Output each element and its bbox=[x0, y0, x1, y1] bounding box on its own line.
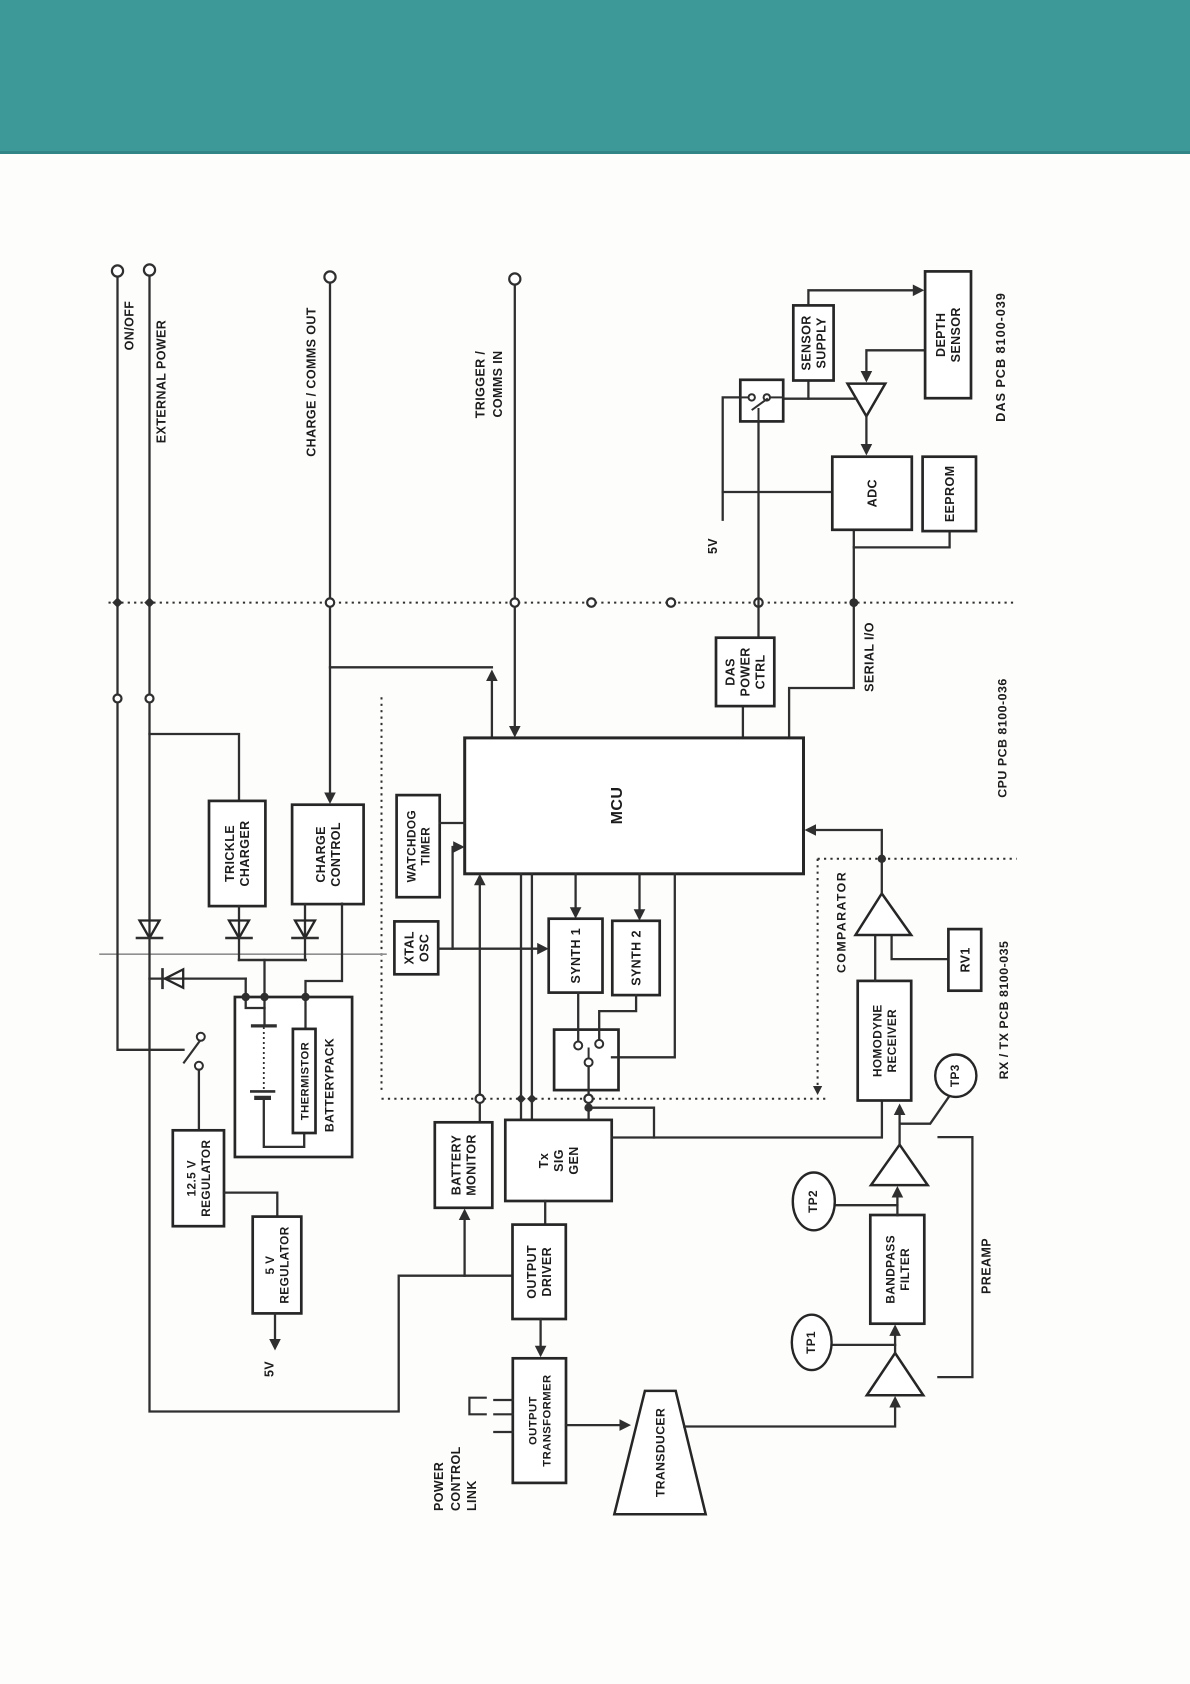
svg-text:DEPTH: DEPTH bbox=[934, 313, 948, 357]
svg-text:REGULATOR: REGULATOR bbox=[278, 1226, 292, 1303]
svg-text:XTAL: XTAL bbox=[402, 931, 416, 964]
svg-text:BATTERYPACK: BATTERYPACK bbox=[322, 1038, 336, 1132]
svg-text:FILTER: FILTER bbox=[898, 1248, 912, 1291]
svg-text:TP2: TP2 bbox=[806, 1190, 820, 1213]
svg-text:CPU PCB 8100-036: CPU PCB 8100-036 bbox=[996, 678, 1010, 798]
svg-text:TRIGGER /: TRIGGER / bbox=[474, 351, 488, 419]
svg-text:SERIAL I/O: SERIAL I/O bbox=[863, 622, 877, 692]
svg-text:OUTPUT: OUTPUT bbox=[528, 1396, 540, 1445]
svg-text:CTRL: CTRL bbox=[754, 654, 768, 689]
svg-text:ADC: ADC bbox=[866, 479, 880, 507]
svg-text:CONTROL: CONTROL bbox=[449, 1446, 463, 1511]
svg-text:RECEIVER: RECEIVER bbox=[885, 1009, 899, 1073]
svg-text:TP3: TP3 bbox=[948, 1064, 962, 1087]
svg-text:BANDPASS: BANDPASS bbox=[883, 1235, 897, 1304]
svg-text:TP1: TP1 bbox=[804, 1331, 818, 1354]
svg-text:SIG: SIG bbox=[552, 1149, 566, 1172]
svg-text:PREAMP: PREAMP bbox=[980, 1238, 994, 1294]
svg-text:TRANSDUCER: TRANSDUCER bbox=[653, 1408, 667, 1497]
svg-text:EXTERNAL POWER: EXTERNAL POWER bbox=[155, 320, 169, 443]
svg-text:TRANSFORMER: TRANSFORMER bbox=[542, 1374, 554, 1466]
svg-text:POWER: POWER bbox=[739, 647, 753, 696]
svg-text:Tx: Tx bbox=[537, 1153, 551, 1168]
svg-text:BATTERY: BATTERY bbox=[450, 1135, 464, 1196]
svg-text:MCU: MCU bbox=[609, 787, 626, 825]
svg-text:COMPARATOR: COMPARATOR bbox=[835, 871, 849, 973]
svg-text:CHARGER: CHARGER bbox=[238, 821, 252, 887]
svg-text:12.5 V: 12.5 V bbox=[184, 1160, 198, 1197]
svg-text:TIMER: TIMER bbox=[418, 827, 432, 866]
svg-text:SENSOR: SENSOR bbox=[949, 307, 963, 362]
svg-text:POWER: POWER bbox=[432, 1462, 446, 1511]
svg-text:5 V: 5 V bbox=[263, 1256, 277, 1275]
svg-text:OSC: OSC bbox=[417, 934, 431, 962]
svg-text:EEPROM: EEPROM bbox=[943, 466, 957, 523]
svg-text:OUTPUT: OUTPUT bbox=[525, 1245, 539, 1299]
svg-text:CONTROL: CONTROL bbox=[329, 822, 343, 887]
svg-text:COMMS IN: COMMS IN bbox=[491, 350, 505, 417]
svg-text:LINK: LINK bbox=[465, 1480, 479, 1511]
svg-text:RX / TX PCB 8100-035: RX / TX PCB 8100-035 bbox=[997, 941, 1011, 1080]
svg-text:SYNTH 2: SYNTH 2 bbox=[630, 930, 644, 986]
svg-text:DAS: DAS bbox=[724, 658, 738, 686]
svg-text:SYNTH 1: SYNTH 1 bbox=[569, 928, 583, 984]
svg-text:DAS PCB 8100-039: DAS PCB 8100-039 bbox=[993, 292, 1008, 422]
svg-text:THERMISTOR: THERMISTOR bbox=[299, 1042, 311, 1120]
svg-text:HOMODYNE: HOMODYNE bbox=[870, 1004, 884, 1077]
svg-text:SUPPLY: SUPPLY bbox=[815, 317, 829, 369]
svg-text:SENSOR: SENSOR bbox=[800, 315, 814, 370]
svg-text:WATCHDOG: WATCHDOG bbox=[404, 810, 418, 882]
svg-text:5V: 5V bbox=[706, 538, 720, 554]
svg-text:GEN: GEN bbox=[567, 1146, 581, 1174]
svg-text:MONITOR: MONITOR bbox=[465, 1134, 479, 1196]
svg-text:RV1: RV1 bbox=[958, 947, 972, 972]
svg-text:ON/OFF: ON/OFF bbox=[123, 301, 137, 351]
svg-text:DRIVER: DRIVER bbox=[540, 1247, 554, 1297]
svg-text:REGULATOR: REGULATOR bbox=[199, 1140, 213, 1217]
svg-text:CHARGE / COMMS OUT: CHARGE / COMMS OUT bbox=[305, 307, 319, 457]
svg-text:5V: 5V bbox=[263, 1361, 277, 1377]
svg-text:CHARGE: CHARGE bbox=[314, 826, 328, 883]
svg-text:TRICKLE: TRICKLE bbox=[223, 825, 237, 882]
